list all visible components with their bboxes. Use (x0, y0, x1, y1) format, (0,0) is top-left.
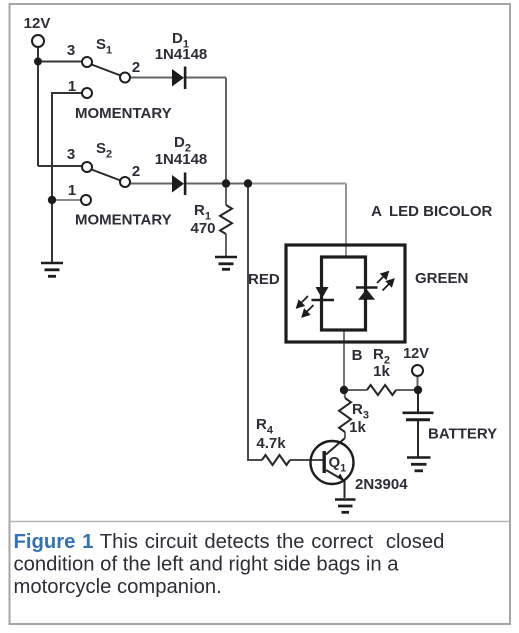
svg-text:3: 3 (67, 42, 75, 59)
svg-text:B: B (352, 347, 363, 364)
svg-text:12V: 12V (403, 346, 429, 362)
svg-text:GREEN: GREEN (415, 270, 468, 287)
svg-text:4.7k: 4.7k (256, 435, 286, 452)
svg-text:1N4148: 1N4148 (155, 151, 208, 168)
svg-text:MOMENTARY: MOMENTARY (75, 212, 172, 229)
svg-text:R4: R4 (256, 416, 274, 437)
svg-text:12V: 12V (24, 15, 51, 32)
svg-text:1k: 1k (373, 363, 390, 380)
svg-text:1: 1 (68, 78, 76, 95)
svg-text:1: 1 (68, 182, 76, 199)
svg-text:condition of the left and righ: condition of the left and right side bag… (14, 554, 400, 576)
svg-text:1N4148: 1N4148 (155, 46, 208, 63)
svg-text:S2: S2 (96, 140, 112, 161)
svg-text:LED BICOLOR: LED BICOLOR (389, 203, 492, 220)
svg-text:MOMENTARY: MOMENTARY (75, 105, 172, 122)
svg-text:2N3904: 2N3904 (355, 476, 408, 493)
svg-text:BATTERY: BATTERY (428, 426, 497, 443)
svg-text:RED: RED (248, 271, 280, 288)
svg-text:S1: S1 (96, 36, 112, 57)
svg-text:1k: 1k (349, 419, 366, 436)
svg-text:2: 2 (132, 59, 140, 76)
svg-text:A: A (371, 203, 382, 220)
svg-text:470: 470 (190, 220, 215, 237)
svg-text:2: 2 (132, 163, 140, 180)
svg-text:Q1: Q1 (329, 454, 347, 475)
svg-text:motorcycle companion.: motorcycle companion. (14, 576, 222, 598)
svg-text:3: 3 (67, 146, 75, 163)
svg-text:Figure 1 This circuit detects: Figure 1 This circuit detects the correc… (14, 531, 445, 553)
